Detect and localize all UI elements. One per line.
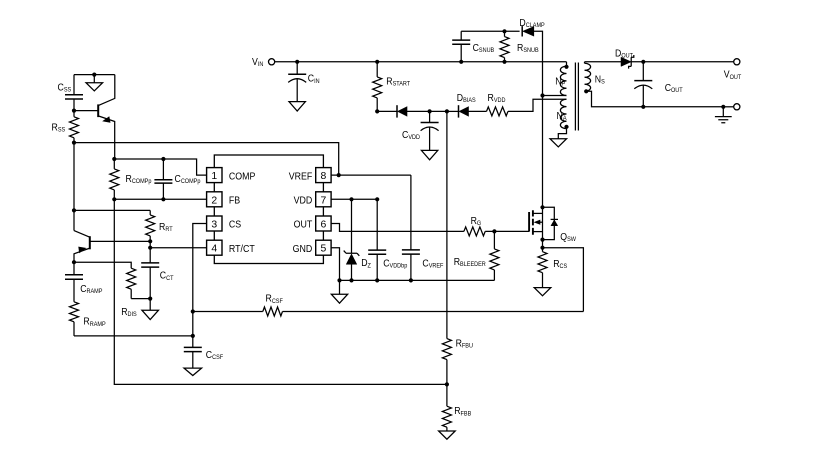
wire output top [631, 61, 734, 63]
resistor RCSF [193, 311, 263, 313]
svg-text:7: 7 [321, 195, 327, 206]
terminal VIN [269, 59, 275, 65]
pin 4 box [207, 240, 222, 255]
ground NA [550, 139, 567, 147]
svg-text:OUT: OUT [294, 219, 313, 231]
wire FB drop to divider [114, 199, 447, 384]
wire pin4 to RT node [150, 247, 206, 249]
wire VDD pin7 [331, 198, 377, 200]
pin 3 box [207, 216, 222, 231]
svg-text:VREF: VREF [289, 171, 313, 183]
wire to RRT [74, 209, 150, 211]
resistor RSNUB [504, 31, 506, 36]
node NS phase dot [584, 89, 588, 93]
resistor RFBB [446, 384, 448, 406]
node CSS bottom junction [72, 109, 76, 113]
pin 5 box [316, 240, 331, 255]
resistor RRT [149, 210, 151, 215]
wire bias4 [447, 110, 459, 112]
node gate junction [492, 229, 496, 233]
wire Q2 base to RT node [90, 240, 150, 242]
node soft-start top junction [92, 73, 96, 77]
svg-text:8: 8 [321, 171, 327, 182]
node VDD rstart junction [375, 197, 379, 201]
ground IC [339, 280, 341, 294]
wire bias3 [430, 110, 447, 112]
ground CIN [289, 102, 305, 111]
resistor RCS [542, 240, 544, 252]
diode DCLAMP [521, 26, 523, 36]
node CVDDbp bottom [375, 278, 379, 282]
body diode QSW [543, 207, 555, 239]
wire OUT pin6 [331, 224, 464, 232]
pin 2 box [207, 192, 222, 207]
wire NA to ground [558, 129, 566, 139]
node CCOMP bottom [161, 197, 165, 201]
zener DZ [351, 199, 353, 253]
capacitor CVDDbp [376, 199, 378, 250]
capacitor CSNUB [460, 44, 462, 62]
capacitor CSS [73, 75, 75, 95]
capacitor CVDD [429, 111, 431, 122]
wire VREF pin8 [331, 174, 411, 176]
node RCOMP bottom [112, 197, 116, 201]
resistor RRAMP [70, 302, 79, 322]
node ramp bottom junction [191, 334, 195, 338]
node RCSF junction [191, 309, 195, 313]
wire GND pin5 [331, 248, 339, 281]
wire RDIS to ground node [131, 298, 150, 300]
ground CCSF [184, 368, 202, 375]
wire VREF distribution [74, 143, 339, 176]
node DZ top [349, 197, 353, 201]
node sense junction [540, 246, 544, 250]
diode DOUT [621, 57, 631, 66]
node FB divider junction [445, 382, 449, 386]
wire ramp bottom [74, 335, 193, 337]
wire bias to NA [508, 99, 567, 111]
capacitor CCSF [184, 346, 202, 348]
wire NP bottom [543, 95, 567, 97]
svg-text:5: 5 [321, 244, 327, 255]
diode D1 [396, 105, 398, 117]
wire NS top to DOUT [585, 61, 622, 63]
winding NS [584, 62, 586, 64]
node NA phase dot [564, 125, 568, 129]
svg-text:FB: FB [229, 195, 240, 207]
capacitor CRAMP [73, 262, 75, 275]
node gnd bus corner [337, 278, 341, 282]
pin 8 box [316, 168, 331, 183]
svg-text:3: 3 [211, 220, 217, 231]
node CVDD junction [428, 109, 432, 113]
node RFBU top junction [445, 109, 449, 113]
resistor RSTART [376, 62, 378, 77]
wire snubber top [461, 30, 519, 32]
resistor RCOMP [113, 159, 115, 169]
node RSNUB bottom [502, 60, 506, 64]
node NP bottom junction [540, 93, 544, 97]
svg-text:1: 1 [211, 171, 217, 182]
pin 1 box [207, 168, 222, 183]
node RRT bottom junction [148, 239, 152, 243]
resistor RSS [73, 111, 75, 117]
wire FB [114, 198, 206, 200]
ground CCT [149, 299, 151, 311]
svg-text:GND: GND [293, 243, 313, 255]
wire VDD column [446, 111, 448, 338]
node RSTART junction [375, 60, 379, 64]
node CSNUB bus junction [459, 60, 463, 64]
winding NP [566, 62, 568, 66]
node CCOMP top [161, 157, 165, 161]
ground soft-start inverted reference [93, 75, 95, 83]
wire ground bus [340, 279, 495, 281]
resistor RBLEEDER [493, 231, 495, 249]
wire soft-start top rail [74, 74, 115, 76]
ground RFBB [439, 431, 456, 439]
wire COMP to pin1 [114, 159, 206, 175]
pin 7 box [316, 192, 331, 207]
resistor RDIS [127, 268, 136, 289]
wire gate [485, 230, 529, 232]
node RSS bottom junction [72, 141, 76, 145]
wire source sense [543, 248, 584, 312]
wire drain column [542, 96, 544, 240]
node Q2 emitter junction [72, 260, 76, 264]
capacitor CCOMP [162, 159, 164, 180]
wire VIN bus [275, 61, 567, 63]
wire bias2 [407, 110, 430, 112]
resistor RG [464, 227, 485, 236]
node RSTART bottom junction [375, 109, 379, 113]
wire emitter to RDIS [74, 262, 131, 268]
wire Q1 base [74, 110, 98, 112]
node RSNUB top [502, 29, 506, 33]
ground earth output [722, 107, 724, 117]
node DZ bottom [349, 278, 353, 282]
svg-text:RT/CT: RT/CT [229, 243, 255, 255]
wire RT column [149, 241, 151, 247]
node CIN junction [295, 60, 299, 64]
transistor Q2 [74, 231, 90, 238]
svg-text:6: 6 [321, 220, 327, 231]
op-amp U1 PWM controller body [214, 155, 323, 264]
node CVREF bottom [409, 278, 413, 282]
capacitor CIN [296, 62, 298, 74]
node drain diode junction [540, 205, 544, 209]
ground CVDD [421, 150, 437, 159]
wire left rail [73, 143, 75, 231]
node earth junction [721, 105, 725, 109]
winding NA [560, 99, 566, 128]
resistor RVDD [487, 107, 508, 116]
terminal VOUT plus [734, 59, 740, 65]
svg-text:VDD: VDD [294, 195, 313, 207]
capacitor CVREF [410, 175, 412, 250]
node RTCT junction [148, 246, 152, 250]
pin 6 box [316, 216, 331, 231]
wire bias1 [377, 110, 397, 112]
node comp rail top [112, 157, 116, 161]
node VREF junction [337, 173, 341, 177]
node source junction [540, 238, 544, 242]
node NP phase dot [564, 65, 568, 69]
terminal VOUT minus [734, 104, 740, 110]
node COUT top [641, 60, 645, 64]
wire NS bottom [585, 91, 724, 107]
node RRT tap [72, 208, 76, 212]
capacitor COUT [642, 62, 644, 81]
ground RCS [534, 288, 551, 296]
node CCT ground junction [148, 297, 152, 301]
transistor QSW [528, 212, 530, 232]
wire CS drop [193, 224, 207, 348]
wire bias5 [469, 110, 487, 112]
diode DBIAS [458, 105, 460, 117]
node COUT bottom [641, 105, 645, 109]
transformer core [575, 63, 578, 131]
svg-text:2: 2 [211, 195, 217, 206]
resistor RFBU [442, 339, 451, 360]
svg-text:4: 4 [211, 244, 217, 255]
svg-text:COMP: COMP [229, 171, 256, 183]
capacitor CCT [149, 248, 151, 263]
svg-text:CS: CS [229, 219, 241, 231]
wire clamp to drain [533, 31, 542, 95]
transistor Q1 [97, 104, 99, 117]
